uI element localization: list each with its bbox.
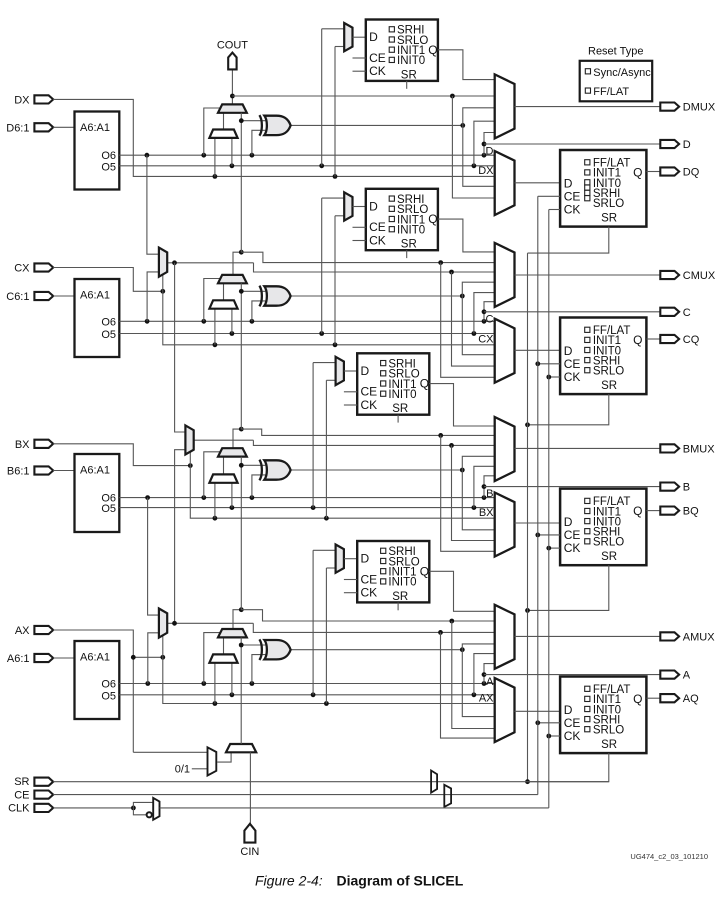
svg-text:A: A: [486, 676, 494, 688]
svg-text:Reset Type: Reset Type: [588, 46, 643, 58]
svg-text:Q: Q: [428, 43, 437, 57]
svg-text:SR: SR: [601, 551, 617, 563]
svg-text:AMUX: AMUX: [683, 631, 715, 643]
svg-text:CX: CX: [14, 263, 30, 275]
svg-text:CK: CK: [369, 64, 386, 78]
svg-text:C6:1: C6:1: [6, 291, 29, 303]
svg-text:C: C: [486, 313, 494, 325]
svg-text:CIN: CIN: [240, 846, 259, 858]
svg-text:Q: Q: [420, 377, 429, 391]
svg-text:O5: O5: [101, 503, 116, 515]
svg-text:Q: Q: [420, 564, 429, 578]
svg-text:DX: DX: [14, 94, 30, 106]
svg-text:SR: SR: [392, 403, 408, 415]
svg-text:DX: DX: [478, 165, 494, 177]
svg-text:CE: CE: [361, 572, 378, 586]
svg-text:A6:A1: A6:A1: [80, 122, 110, 134]
svg-text:SR: SR: [14, 776, 29, 788]
svg-text:A: A: [683, 670, 691, 682]
svg-text:SRLO: SRLO: [593, 725, 624, 737]
svg-text:B: B: [683, 482, 690, 494]
svg-text:CE: CE: [564, 528, 581, 542]
svg-text:A6:A1: A6:A1: [80, 652, 110, 664]
svg-text:O5: O5: [101, 329, 116, 341]
svg-text:B: B: [486, 488, 493, 500]
svg-text:Sync/Async: Sync/Async: [593, 67, 651, 79]
svg-text:INIT0: INIT0: [388, 577, 416, 589]
svg-text:O6: O6: [101, 679, 116, 691]
svg-text:SR: SR: [601, 739, 617, 751]
svg-text:CMUX: CMUX: [683, 270, 716, 282]
svg-text:CE: CE: [361, 385, 378, 399]
svg-text:SR: SR: [401, 69, 417, 81]
svg-text:Figure 2-4:: Figure 2-4:: [255, 873, 323, 889]
svg-text:INIT0: INIT0: [397, 225, 425, 237]
svg-text:SR: SR: [401, 239, 417, 251]
svg-text:CLK: CLK: [8, 803, 30, 815]
svg-text:Q: Q: [633, 504, 642, 518]
svg-text:A6:1: A6:1: [7, 653, 30, 665]
svg-text:SR: SR: [601, 213, 617, 225]
svg-text:SRLO: SRLO: [593, 366, 624, 378]
svg-text:FF/LAT: FF/LAT: [593, 86, 629, 98]
svg-text:O5: O5: [101, 161, 116, 173]
svg-text:A6:A1: A6:A1: [80, 290, 110, 302]
svg-text:DMUX: DMUX: [683, 102, 716, 114]
svg-text:INIT0: INIT0: [388, 389, 416, 401]
svg-text:BMUX: BMUX: [683, 443, 715, 455]
svg-text:CK: CK: [564, 370, 581, 384]
svg-text:Diagram of SLICEL: Diagram of SLICEL: [337, 873, 464, 889]
svg-text:O6: O6: [101, 316, 116, 328]
svg-text:SR: SR: [601, 380, 617, 392]
svg-text:D: D: [683, 139, 691, 151]
svg-text:CK: CK: [361, 398, 378, 412]
svg-text:Q: Q: [428, 212, 437, 226]
svg-text:CX: CX: [478, 334, 494, 346]
svg-text:CE: CE: [369, 220, 386, 234]
svg-text:SRLO: SRLO: [593, 198, 624, 210]
svg-text:CE: CE: [564, 716, 581, 730]
svg-text:INIT0: INIT0: [397, 55, 425, 67]
svg-text:B6:1: B6:1: [7, 466, 30, 478]
svg-text:D: D: [486, 146, 494, 158]
svg-text:D: D: [369, 199, 378, 213]
svg-text:CK: CK: [369, 233, 386, 247]
svg-text:D: D: [369, 30, 378, 44]
svg-text:A6:A1: A6:A1: [80, 465, 110, 477]
svg-text:CK: CK: [564, 541, 581, 555]
svg-text:CE: CE: [564, 357, 581, 371]
svg-text:AX: AX: [15, 625, 30, 637]
svg-text:DQ: DQ: [683, 167, 700, 179]
svg-text:SRLO: SRLO: [593, 537, 624, 549]
svg-text:CE: CE: [369, 51, 386, 65]
svg-text:AQ: AQ: [683, 693, 699, 705]
svg-text:D6:1: D6:1: [6, 122, 29, 134]
svg-text:BX: BX: [479, 507, 494, 519]
svg-text:Q: Q: [633, 692, 642, 706]
svg-text:BX: BX: [15, 439, 30, 451]
svg-text:O5: O5: [101, 690, 116, 702]
svg-text:0/1: 0/1: [175, 764, 190, 776]
svg-text:AX: AX: [479, 692, 494, 704]
svg-text:CE: CE: [564, 189, 581, 203]
svg-text:CK: CK: [564, 203, 581, 217]
svg-text:COUT: COUT: [217, 40, 248, 52]
svg-text:CK: CK: [564, 729, 581, 743]
svg-text:BQ: BQ: [683, 506, 699, 518]
svg-text:UG474_c2_03_101210: UG474_c2_03_101210: [630, 852, 708, 861]
svg-text:SR: SR: [392, 591, 408, 603]
svg-text:D: D: [361, 552, 370, 566]
svg-text:Q: Q: [633, 333, 642, 347]
svg-text:CQ: CQ: [683, 334, 700, 346]
svg-text:CE: CE: [14, 789, 29, 801]
svg-text:D: D: [361, 364, 370, 378]
svg-text:C: C: [683, 307, 691, 319]
svg-text:CK: CK: [361, 586, 378, 600]
svg-text:Q: Q: [633, 166, 642, 180]
